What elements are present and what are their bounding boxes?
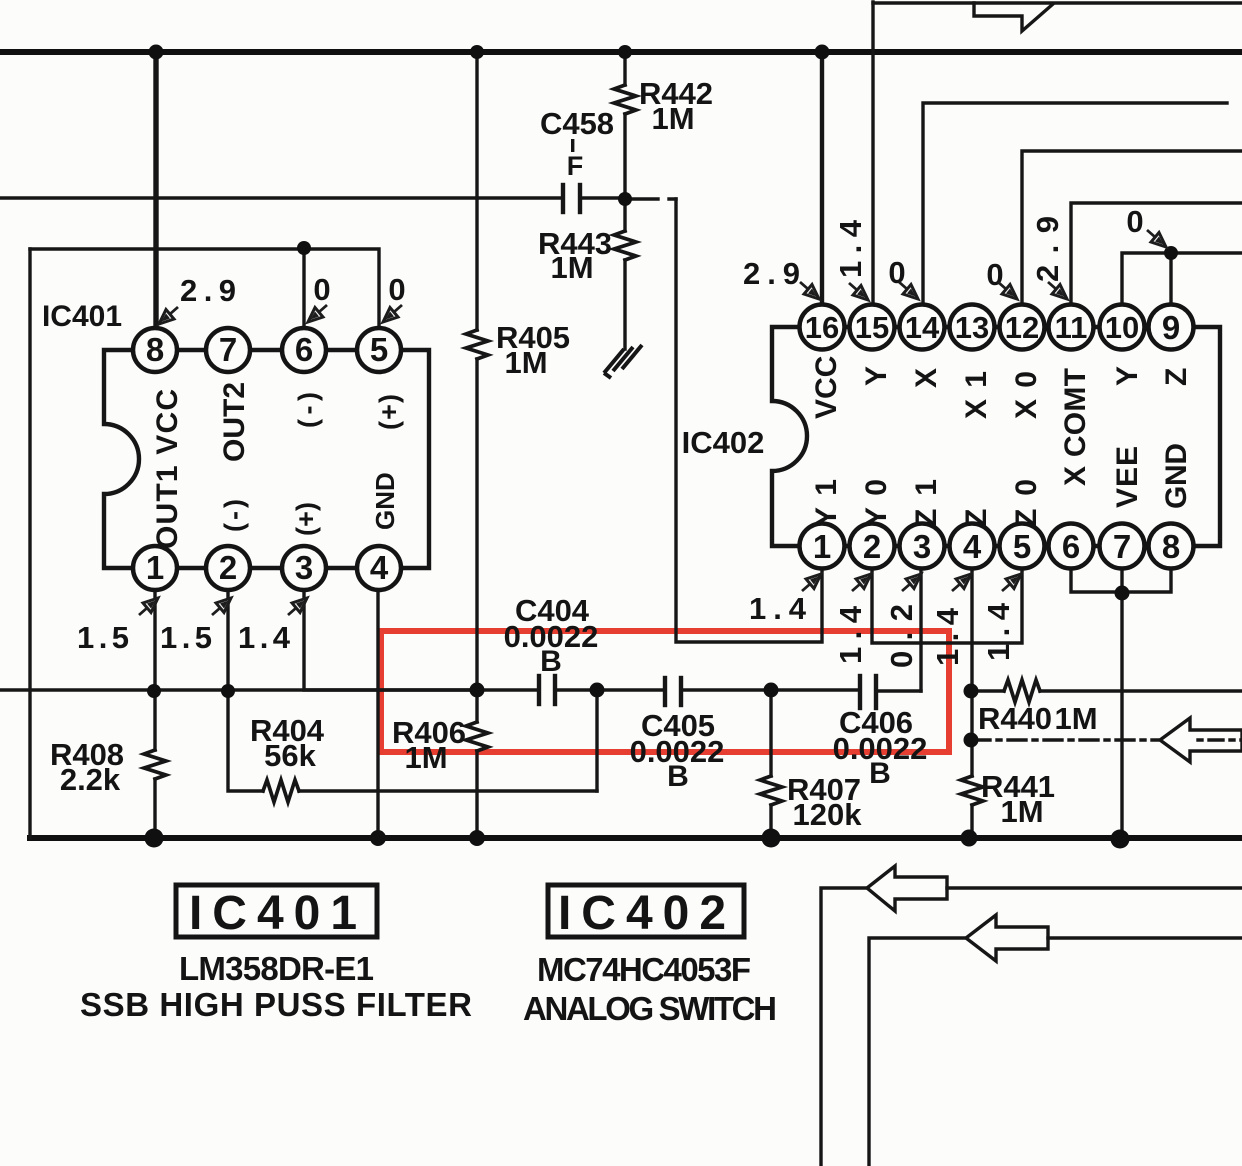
svg-text:6: 6	[295, 331, 313, 368]
svg-text:2: 2	[219, 549, 237, 586]
svg-text:VCC: VCC	[810, 356, 843, 419]
wire main y690 net from left edge	[0, 688, 537, 691]
resistor R404	[250, 690, 597, 802]
svg-text:10: 10	[1105, 310, 1139, 345]
svg-text:1M: 1M	[651, 101, 694, 136]
wire bottom ground bus	[30, 835, 1242, 841]
svg-text:1: 1	[146, 549, 164, 586]
IC402 designator box	[523, 885, 777, 1027]
svg-text:1.5: 1.5	[160, 620, 212, 655]
resistor R405	[466, 52, 570, 690]
svg-text:1.4: 1.4	[833, 605, 868, 664]
svg-text:(+): (+)	[374, 394, 404, 430]
svg-text:2.9: 2.9	[743, 256, 800, 291]
svg-text:0: 0	[313, 272, 330, 307]
svg-text:5: 5	[370, 331, 388, 368]
svg-text:F: F	[567, 151, 584, 181]
wire pin9 riser	[1169, 253, 1172, 305]
svg-text:IC402: IC402	[682, 425, 765, 460]
svg-text:1M: 1M	[504, 345, 547, 380]
svg-text:B: B	[540, 645, 562, 678]
wire IC401 pin3 column to node	[304, 590, 477, 690]
wire IC402 pin14 net	[923, 103, 1227, 305]
svg-text:2.9: 2.9	[180, 273, 236, 308]
svg-text:Z: Z	[960, 509, 993, 527]
svg-text:Y: Y	[1111, 366, 1144, 386]
svg-text:IC401: IC401	[189, 887, 367, 940]
bottom off-page arrow wire 2	[869, 938, 964, 1166]
arrow off-page right middle	[1160, 718, 1242, 762]
svg-text:ANALOG SWITCH: ANALOG SWITCH	[523, 990, 777, 1027]
resistor R442	[614, 52, 713, 199]
svg-text:8: 8	[146, 331, 164, 368]
red highlight box	[381, 631, 949, 752]
voltage labels IC402 bottom	[749, 591, 1016, 668]
wire IC401 pin4 column to ground bus	[376, 590, 379, 838]
op-amp IC401 body	[42, 300, 429, 568]
svg-text:1.4: 1.4	[930, 607, 965, 666]
capacitor C405	[630, 678, 858, 793]
op-amp IC401 pins	[133, 328, 401, 590]
svg-text:6: 6	[1062, 528, 1080, 565]
svg-text:1.4: 1.4	[749, 591, 807, 626]
svg-text:3: 3	[295, 549, 313, 586]
svg-text:C458: C458	[540, 106, 614, 141]
svg-text:2: 2	[863, 528, 881, 565]
svg-text:16: 16	[805, 310, 839, 345]
svg-text:(+): (+)	[291, 502, 321, 536]
svg-text:MC74HC4053F: MC74HC4053F	[537, 951, 751, 988]
wire riser x676 down and over to IC402 pin1	[676, 199, 822, 642]
wire IC402 pin12 net	[1022, 151, 1242, 305]
analog switch IC402 pins	[800, 305, 1194, 569]
svg-text:Y: Y	[860, 366, 893, 386]
wire IC401 pin2 column	[228, 590, 263, 791]
svg-text:1M: 1M	[550, 250, 593, 285]
svg-text:0: 0	[986, 257, 1003, 292]
svg-text:IC401: IC401	[42, 300, 122, 333]
resistor R406	[392, 690, 488, 838]
svg-text:8: 8	[1162, 528, 1180, 565]
resistor R441	[961, 769, 1055, 838]
wire IC402 pins 6,7,8 tie	[1071, 568, 1171, 592]
voltage labels IC401	[77, 272, 406, 655]
svg-text:120k: 120k	[793, 797, 863, 832]
wire IC402 pin4 column to ground bus	[970, 568, 973, 776]
IC401 designator box	[80, 885, 472, 1023]
svg-text:0.2: 0.2	[884, 604, 919, 668]
svg-text:15: 15	[855, 310, 889, 345]
analog switch IC402 body	[682, 327, 1220, 546]
svg-text:B: B	[869, 757, 891, 790]
svg-text:1.4: 1.4	[981, 602, 1016, 661]
svg-text:1M: 1M	[404, 740, 447, 775]
wire left outer vertical	[28, 249, 31, 838]
wire IC401 pins 5/6 top net	[30, 249, 379, 329]
svg-text:X COMT: X COMT	[1059, 368, 1092, 486]
ground	[604, 345, 642, 378]
svg-text:0: 0	[388, 272, 405, 307]
wire dash-dot to left arrow	[972, 738, 1158, 741]
capacitor C458	[540, 106, 624, 212]
resistor R440	[972, 680, 1242, 736]
svg-text:1.4: 1.4	[833, 219, 868, 278]
voltage labels IC402 top	[743, 204, 1144, 292]
svg-text:7: 7	[219, 331, 237, 368]
wire IC401 pin1 column down to ground bus	[153, 590, 156, 750]
resistor R408	[50, 737, 166, 838]
svg-text:GND: GND	[1160, 443, 1193, 509]
wire IC402 pin15 from top edge	[871, 2, 874, 305]
svg-text:4: 4	[963, 528, 982, 565]
svg-text:2.2k: 2.2k	[60, 762, 121, 797]
wire VCC feed to IC401 pin8	[153, 52, 158, 329]
wire IC402 pin10/pin9 net	[1122, 253, 1242, 305]
svg-text:1.4: 1.4	[238, 620, 291, 655]
svg-text:12: 12	[1005, 310, 1039, 345]
wire y198 net from left edge to C458	[0, 196, 561, 199]
svg-text:1M: 1M	[1054, 701, 1097, 736]
IC401 pin labels	[151, 382, 404, 549]
arrow off-page B	[966, 915, 1048, 961]
wire C406 riser to IC402 pin3	[919, 568, 922, 691]
svg-text:VEE: VEE	[1111, 446, 1144, 508]
svg-text:LM358DR-E1: LM358DR-E1	[179, 950, 374, 987]
svg-text:OUT1 VCC: OUT1 VCC	[151, 389, 184, 549]
svg-text:5: 5	[1013, 528, 1031, 565]
svg-text:(-): (-)	[293, 392, 323, 428]
svg-text:7: 7	[1113, 528, 1131, 565]
IC402 pin labels	[810, 356, 1193, 527]
svg-text:9: 9	[1162, 309, 1180, 346]
svg-text:13: 13	[955, 310, 989, 345]
resistor R443	[538, 199, 636, 349]
wire IC402 pin2 to pin5	[872, 568, 1022, 643]
svg-text:2.9: 2.9	[1030, 216, 1065, 282]
svg-text:1.5: 1.5	[77, 620, 129, 655]
wire top supply bus	[0, 49, 1242, 55]
svg-text:X: X	[910, 368, 943, 388]
svg-text:B: B	[667, 760, 689, 793]
svg-text:R440: R440	[978, 701, 1052, 736]
bottom left off-page arrow wire	[821, 888, 865, 1166]
wire top edge net with arrow	[873, 1, 1242, 4]
svg-text:Z: Z	[1160, 368, 1193, 386]
arrow off-page A	[867, 866, 947, 911]
svg-text:GND: GND	[370, 472, 400, 530]
svg-text:(-): (-)	[219, 499, 249, 532]
svg-text:56k: 56k	[264, 738, 316, 773]
arrow top right (cut)	[974, 3, 1053, 31]
svg-text:11: 11	[1055, 310, 1088, 345]
svg-text:SSB HIGH PUSS FILTER: SSB HIGH PUSS FILTER	[80, 986, 472, 1023]
capacitor C406	[833, 676, 928, 790]
wire IC402 pin11 net	[1071, 203, 1242, 305]
svg-text:IC402: IC402	[558, 887, 736, 940]
svg-text:4: 4	[370, 549, 389, 586]
svg-text:0: 0	[1126, 204, 1143, 239]
svg-text:1M: 1M	[1000, 794, 1043, 829]
svg-text:OUT2: OUT2	[218, 382, 251, 462]
capacitor C404	[504, 593, 663, 704]
svg-text:3: 3	[913, 528, 931, 565]
wire pin6 drop	[302, 249, 305, 329]
wire IC402 pin16 VCC feed	[820, 52, 824, 305]
svg-text:14: 14	[905, 310, 940, 345]
svg-text:1: 1	[813, 528, 831, 565]
resistor R407	[760, 690, 862, 838]
wire dash from C458 node to IC402 pin1 riser	[633, 197, 676, 200]
node junction dots	[145, 45, 1179, 849]
